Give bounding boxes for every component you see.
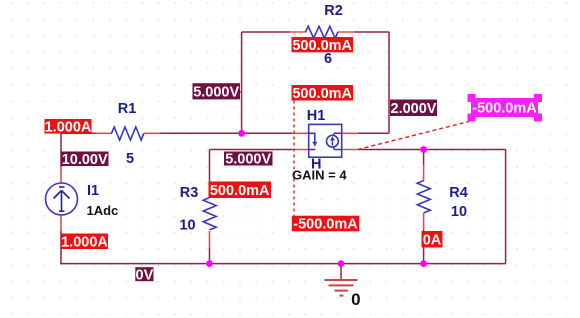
wire: R4 branch lower vertical <box>423 230 425 264</box>
svg-text:R1: R1 <box>118 101 137 117</box>
svg-text:10.00V: 10.00V <box>62 152 108 168</box>
bias label 10.00V <box>61 152 109 168</box>
bias label 2.000V <box>390 100 437 117</box>
svg-text:0V: 0V <box>136 267 154 283</box>
junction node A (top loop / R1 wire) <box>238 130 245 137</box>
svg-text:R3: R3 <box>180 185 199 201</box>
svg-text:H1: H1 <box>307 108 326 124</box>
svg-text:5: 5 <box>126 151 134 167</box>
bias label 500.0mA (R3) <box>209 182 272 199</box>
bias label 0A (R4) <box>422 231 443 248</box>
wire: H1 upper-right to loop right edge <box>358 132 389 134</box>
svg-text:0: 0 <box>351 290 360 309</box>
wire: R3 branch lower vertical <box>209 248 211 264</box>
current source I1 <box>46 183 78 215</box>
svg-text:-500.0mA: -500.0mA <box>293 217 358 233</box>
junction node D (ground rail) <box>338 260 345 267</box>
svg-text:1.000A: 1.000A <box>61 234 108 250</box>
resistor R1 body <box>112 127 144 140</box>
pin stubs H1 <box>293 133 358 149</box>
resistor R3 body <box>203 198 216 230</box>
svg-text:2.000V: 2.000V <box>391 101 437 117</box>
resistor R4 body <box>417 181 430 213</box>
pin stubs R2 <box>290 31 355 33</box>
bias label 1.000A (I1 bottom) <box>61 234 108 251</box>
svg-text:500.0mA: 500.0mA <box>210 183 270 199</box>
bias label 0V <box>135 267 153 283</box>
svg-text:1Adc: 1Adc <box>87 203 119 218</box>
wire: R4 branch upper vertical <box>423 150 425 165</box>
svg-text:I1: I1 <box>87 183 99 199</box>
wire: left branch lower vertical (I1 bottom to bottom rail) <box>60 231 62 264</box>
ground <box>325 280 358 296</box>
bias label 500.0mA (H1 upper) <box>292 85 354 102</box>
wire: top loop top-left segment <box>242 31 290 33</box>
wire: R1 to H1 upper-left (through junction) <box>161 132 293 134</box>
svg-text:0A: 0A <box>423 232 442 248</box>
bias label 5.000V (top) <box>193 83 241 100</box>
dashed probe connector vertical <box>293 101 295 216</box>
junction node C (R3 bottom rail) <box>206 260 213 267</box>
svg-text:10: 10 <box>451 204 467 220</box>
bias label 1.000A (I1 top) <box>45 119 92 135</box>
wire: ground stub <box>340 264 342 280</box>
controlled source H1 <box>309 124 342 157</box>
resistor R2 body <box>306 26 338 38</box>
wire: top loop left edge <box>241 32 243 133</box>
junction node B (H1 output / R4 top) <box>420 146 427 153</box>
pin stubs R1 <box>96 132 161 134</box>
svg-text:GAIN = 4: GAIN = 4 <box>292 168 347 183</box>
svg-text:5.000V: 5.000V <box>225 152 271 168</box>
svg-text:1.000A: 1.000A <box>45 119 92 135</box>
wire: top loop right edge <box>388 32 390 133</box>
wire: right loop edge vertical <box>505 150 507 264</box>
wire: R3 branch upper vertical <box>209 150 211 182</box>
bias label 500.0mA (R2 top) <box>292 37 354 54</box>
wire: bottom rail <box>60 263 505 265</box>
pin stubs I1 <box>60 167 62 231</box>
svg-text:R4: R4 <box>449 185 468 201</box>
wire: left branch upper vertical (I1 top to R1 wire) <box>60 133 62 167</box>
dashed probe connector diagonal <box>358 122 469 150</box>
wire: H1 lower-right to right loop edge <box>358 149 506 151</box>
pin stubs R4 <box>423 165 425 230</box>
svg-text:-500.0mA: -500.0mA <box>472 101 537 117</box>
svg-text:R2: R2 <box>324 3 343 19</box>
pin stubs R3 <box>209 182 211 248</box>
bias label -500.0mA (H1 lower) <box>292 216 360 233</box>
bias label 5.000V (R3 top) <box>224 152 273 168</box>
svg-text:500.0mA: 500.0mA <box>292 86 352 102</box>
dashed stub for 5.000V box <box>240 91 244 93</box>
svg-text:500.0mA: 500.0mA <box>292 38 352 54</box>
wire: top loop top-right segment <box>355 31 390 33</box>
wire: top-left horizontal to R1 <box>61 132 96 134</box>
svg-text:10: 10 <box>179 218 195 234</box>
selected bias label -500.0mA (magenta, with handles) <box>468 94 543 122</box>
junction node E (R4 bottom rail) <box>420 260 427 267</box>
wire: R3 top to H1 lower-left <box>210 149 293 151</box>
svg-text:5.000V: 5.000V <box>193 84 239 100</box>
